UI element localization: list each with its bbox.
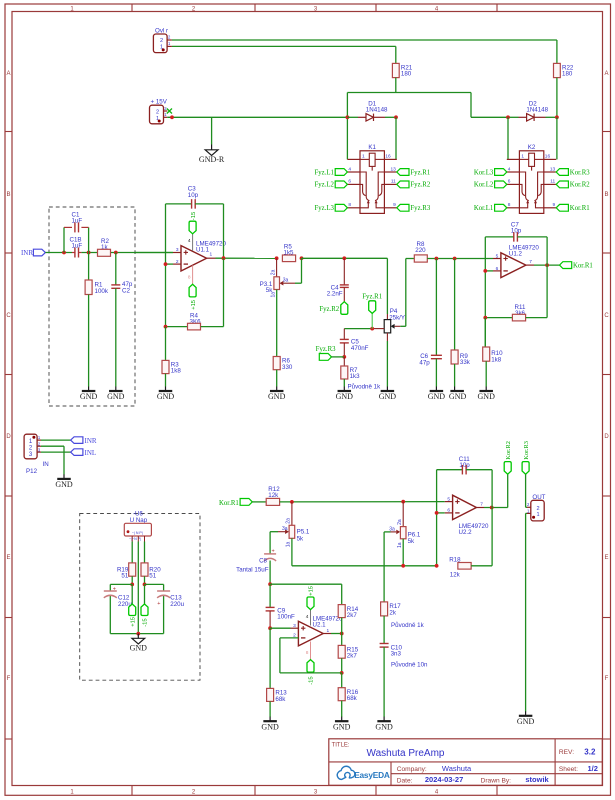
svg-text:3a: 3a xyxy=(283,277,289,283)
svg-text:-15: -15 xyxy=(191,212,197,220)
junction -in xyxy=(164,262,168,266)
junction output feedback xyxy=(222,256,226,260)
svg-text:1k8: 1k8 xyxy=(491,356,502,363)
svg-text:Ovl r: Ovl r xyxy=(155,27,168,34)
wire P4 wiper riser to R8 xyxy=(406,259,414,327)
ground under R3 xyxy=(165,387,167,392)
svg-text:7: 7 xyxy=(529,259,532,265)
svg-text:2: 2 xyxy=(156,109,159,115)
svg-text:D: D xyxy=(6,434,11,440)
ground under C6 xyxy=(435,387,437,392)
svg-text:9: 9 xyxy=(393,202,396,208)
svg-text:F: F xyxy=(605,676,609,682)
wire to GND-R xyxy=(211,117,213,144)
capacitor C12 220u xyxy=(104,586,133,608)
svg-text:P5.1: P5.1 xyxy=(297,529,310,536)
svg-text:Fyz.R1: Fyz.R1 xyxy=(362,294,382,301)
svg-text:GND: GND xyxy=(107,392,125,401)
svg-text:U1.2: U1.2 xyxy=(509,251,523,258)
wire K1 pin1 drop xyxy=(346,93,348,160)
junction D1 anode xyxy=(346,115,350,119)
wire U2.1 output xyxy=(323,633,342,635)
svg-text:Fyz.R1: Fyz.R1 xyxy=(410,169,430,176)
svg-text:Původně 1k: Původně 1k xyxy=(348,383,382,390)
svg-text:+15: +15 xyxy=(130,617,136,627)
svg-text:1: 1 xyxy=(536,512,539,518)
junction U2.2 output xyxy=(490,506,494,510)
net flag Fyz.L3 xyxy=(314,204,347,212)
svg-text:8: 8 xyxy=(188,274,191,280)
ground under R13 xyxy=(269,717,271,722)
svg-text:12k: 12k xyxy=(450,571,461,578)
svg-text:1uF: 1uF xyxy=(72,218,83,225)
wire supply left loop xyxy=(110,584,163,633)
op-amp U2.1 LME49720 xyxy=(293,615,343,646)
svg-text:13: 13 xyxy=(390,166,396,172)
svg-text:8: 8 xyxy=(508,202,511,208)
svg-text:6: 6 xyxy=(508,179,511,185)
svg-text:C: C xyxy=(604,313,609,319)
ground under R10 xyxy=(485,387,487,392)
resistor R16 68k xyxy=(338,673,359,717)
svg-text:5k: 5k xyxy=(297,536,304,543)
capacitor C4 2.2nF xyxy=(327,258,349,301)
junction +15V pin1 xyxy=(170,115,174,119)
junction R5 left xyxy=(275,256,279,260)
power flag -15 on U2.1 xyxy=(307,660,315,685)
junction R4 left xyxy=(164,325,168,329)
wire +15V rail xyxy=(167,116,347,118)
junction P6.1 top xyxy=(401,500,405,504)
resistor R6 330 xyxy=(273,290,293,387)
power flag +15 on U2.1 xyxy=(307,586,315,610)
svg-text:10p: 10p xyxy=(188,192,199,199)
wire input rail xyxy=(45,252,172,254)
ground under R16 xyxy=(341,717,343,722)
svg-text:180: 180 xyxy=(562,71,573,78)
U1.1 power pin 8 xyxy=(188,265,193,284)
svg-text:5: 5 xyxy=(496,253,499,259)
svg-text:1N4148: 1N4148 xyxy=(526,107,548,114)
wire feedback right vertical xyxy=(223,204,225,258)
svg-text:1N4148: 1N4148 xyxy=(366,107,388,114)
wire R12 to P6.1 and U2.2 xyxy=(280,501,453,503)
svg-text:1uF: 1uF xyxy=(72,242,83,249)
power flag +15 on U1.1 xyxy=(189,284,197,310)
resistor R15 2k7 xyxy=(338,634,359,673)
svg-text:INR: INR xyxy=(85,437,97,445)
junction input b xyxy=(87,251,91,255)
junction P6.1 bottom xyxy=(401,564,405,568)
connector Ovl r xyxy=(153,27,172,52)
svg-text:Drawn By:: Drawn By: xyxy=(481,777,512,784)
svg-text:EasyEDA: EasyEDA xyxy=(354,770,390,780)
svg-text:GND-R: GND-R xyxy=(199,155,225,164)
svg-text:K2: K2 xyxy=(528,144,536,151)
ground under C10 xyxy=(383,717,385,722)
svg-text:IN: IN xyxy=(43,461,49,468)
svg-text:51: 51 xyxy=(121,572,128,579)
svg-text:Kor.R1: Kor.R1 xyxy=(573,262,593,269)
svg-text:1k3: 1k3 xyxy=(350,373,361,380)
ground under OUT xyxy=(525,711,527,716)
potentiometer P4 25k/Y xyxy=(384,308,406,333)
net flag Kor.L1 xyxy=(474,204,507,212)
junction Fyz.R3 node xyxy=(342,355,346,359)
svg-text:2a: 2a xyxy=(397,519,403,525)
wire P4 bottom to ground xyxy=(386,333,388,387)
svg-text:+15: +15 xyxy=(191,300,197,310)
svg-text:Kor.R2: Kor.R2 xyxy=(570,182,590,189)
svg-text:GND: GND xyxy=(268,392,286,401)
svg-text:U2.2: U2.2 xyxy=(459,529,473,536)
svg-text:stowik: stowik xyxy=(525,775,549,784)
svg-text:INL: INL xyxy=(85,449,97,457)
svg-text:Washuta: Washuta xyxy=(442,764,472,773)
ground under C2 xyxy=(115,387,117,392)
net flag Kor.R1 source xyxy=(219,499,266,508)
svg-text:C2: C2 xyxy=(122,287,130,294)
svg-text:51: 51 xyxy=(149,572,156,579)
resistor R7 1k3 xyxy=(341,357,360,387)
svg-text:3a: 3a xyxy=(282,526,288,532)
resistor R13 68k xyxy=(267,628,288,717)
svg-text:B: B xyxy=(604,192,608,198)
resistor R18 12k xyxy=(449,556,492,578)
svg-text:REV:: REV: xyxy=(559,749,574,756)
svg-text:GND: GND xyxy=(375,722,393,731)
ground GND-R xyxy=(199,150,225,164)
junction R15 bottom xyxy=(340,671,344,675)
svg-text:GND: GND xyxy=(336,392,354,401)
dashed box input filter xyxy=(49,207,135,406)
net flag Fyz.R1 xyxy=(362,294,382,329)
junction D2 anode xyxy=(506,115,510,119)
wire P12 pin2 to ground xyxy=(41,446,64,474)
wire R22 bottom xyxy=(556,78,558,118)
svg-text:1: 1 xyxy=(362,154,365,160)
wire U2.1 feedback loop xyxy=(280,638,342,673)
svg-text:4: 4 xyxy=(188,238,191,244)
wire U2.2 -in xyxy=(437,512,453,514)
svg-text:Fyz.R3: Fyz.R3 xyxy=(410,205,430,212)
resistor R9 33k xyxy=(451,259,471,387)
ground supply mid xyxy=(137,634,139,639)
capacitor C10 3n3 xyxy=(380,644,403,718)
title block xyxy=(329,739,603,786)
net flag Fyz.L1 xyxy=(314,169,347,177)
U2.1 power pin 8 xyxy=(306,642,311,660)
junction R19 out xyxy=(130,583,134,587)
svg-text:GND: GND xyxy=(130,644,148,653)
svg-text:100nF: 100nF xyxy=(277,613,295,620)
port flag INR bottom xyxy=(71,437,97,445)
capacitor C2 47p xyxy=(111,253,133,387)
wire Ovl pin2 to R22 xyxy=(172,40,557,63)
wire K2 pin1 drop xyxy=(507,117,509,159)
svg-text:16: 16 xyxy=(385,154,391,160)
svg-text:−|−N P|: −|−N P| xyxy=(129,537,141,541)
wire output riser to Kor.R2 xyxy=(507,474,509,507)
svg-text:2k: 2k xyxy=(389,609,396,616)
svg-text:+: + xyxy=(272,548,275,554)
svg-text:3a: 3a xyxy=(389,526,395,532)
diode D2 1N4148 xyxy=(508,100,557,121)
wire feedback right vertical xyxy=(546,237,548,265)
resistor R4 3K6 feedback xyxy=(166,258,224,330)
svg-text:E: E xyxy=(6,555,10,561)
svg-text:-15: -15 xyxy=(309,676,315,684)
svg-text:220: 220 xyxy=(415,247,426,254)
resistor R5 1k5 xyxy=(282,243,295,261)
ground under R9 xyxy=(449,387,467,402)
svg-text:2.2nF: 2.2nF xyxy=(327,290,343,297)
junction U2.1 output xyxy=(340,632,344,636)
net flag Fyz.R1 xyxy=(397,169,430,177)
svg-text:Původně 1k: Původně 1k xyxy=(391,622,425,629)
wire U2.2 output xyxy=(476,507,507,509)
wire U6 mid pin to ground rail xyxy=(137,542,139,634)
wire P4 top drop xyxy=(386,258,388,319)
junction P5.1 top xyxy=(290,500,294,504)
net flag Fyz.R3 xyxy=(316,346,345,360)
svg-text:A: A xyxy=(6,71,10,77)
component U6 U Nap xyxy=(124,510,151,541)
svg-text:Fyz.R3: Fyz.R3 xyxy=(316,346,336,353)
svg-text:INR: INR xyxy=(21,249,33,257)
svg-text:Sheet:: Sheet: xyxy=(559,766,578,773)
svg-text:1: 1 xyxy=(210,251,213,257)
svg-text:3n3: 3n3 xyxy=(391,651,402,658)
wire R5 right rail xyxy=(302,257,388,259)
svg-text:GND: GND xyxy=(261,722,279,731)
resistor R17 2k xyxy=(381,602,402,644)
wire R8 to U1.2 xyxy=(427,258,501,260)
junction U2.1 +in xyxy=(268,626,272,630)
capacitor C1B 1uF xyxy=(70,236,83,257)
svg-text:+15: +15 xyxy=(309,586,315,596)
svg-text:100k: 100k xyxy=(95,288,109,295)
svg-text:180: 180 xyxy=(401,71,412,78)
junction D2 cathode xyxy=(555,115,559,119)
junction U1.2 output xyxy=(545,263,549,267)
svg-text:1: 1 xyxy=(521,154,524,160)
resistor R3 1k8 xyxy=(162,327,181,387)
connector OUT xyxy=(527,494,546,521)
svg-text:−| N P|: −| N P| xyxy=(132,531,143,535)
resistor R2 1k xyxy=(98,238,111,256)
svg-text:U2.1: U2.1 xyxy=(313,621,327,628)
svg-text:25k/Y: 25k/Y xyxy=(389,314,405,321)
svg-text:+: + xyxy=(113,586,116,592)
wire C5 node xyxy=(344,328,384,330)
svg-text:47p: 47p xyxy=(419,359,430,366)
wire OUT pin1 to ground xyxy=(526,513,527,711)
svg-text:2a: 2a xyxy=(286,518,292,524)
wire supply right loop xyxy=(145,584,164,633)
wire K1 pin16 drop xyxy=(395,117,397,159)
wire to U1.1 +in xyxy=(135,252,181,254)
net flag Kor.R1 output xyxy=(560,262,593,270)
net flag Kor.L2 xyxy=(474,181,507,189)
junction C8 bottom xyxy=(268,582,272,586)
EasyEDA logo xyxy=(337,766,390,780)
junction R11 left xyxy=(483,316,487,320)
net flag Kor.R2 xyxy=(504,441,512,474)
net flag Fyz.R2 xyxy=(319,302,347,315)
wire P12 pin1 to INR xyxy=(41,439,71,441)
svg-text:1a: 1a xyxy=(286,542,292,548)
svg-text:GND: GND xyxy=(517,717,535,726)
svg-text:F: F xyxy=(7,676,11,682)
svg-text:Washuta PreAmp: Washuta PreAmp xyxy=(367,748,445,759)
svg-text:E: E xyxy=(604,555,608,561)
junction input a xyxy=(62,251,66,255)
junction U2.2 -in xyxy=(435,511,439,515)
resistor R12 12k xyxy=(266,486,280,506)
resistor R11 3k6 xyxy=(485,265,547,321)
svg-text:5k: 5k xyxy=(408,538,415,545)
resistor R14 2k7 xyxy=(338,605,359,634)
svg-text:16: 16 xyxy=(545,154,551,160)
svg-text:GND: GND xyxy=(333,722,351,731)
net flag Fyz.L2 xyxy=(314,181,347,189)
power flag -15 source xyxy=(141,584,149,626)
ground under R1 xyxy=(88,387,90,392)
resistor R1 100k xyxy=(85,253,109,387)
svg-text:GND: GND xyxy=(55,480,73,489)
wire P5.1 bottom rail xyxy=(292,538,437,566)
junction U1.2 -in xyxy=(483,269,487,273)
junction C11 bottom rail xyxy=(435,564,439,568)
svg-text:4: 4 xyxy=(348,166,351,172)
svg-text:+: + xyxy=(157,601,160,607)
capacitor C11 10p feedback xyxy=(437,456,493,475)
power flag -15 on U1.1 xyxy=(189,212,197,234)
svg-text:220u: 220u xyxy=(170,601,184,608)
svg-text:2k7: 2k7 xyxy=(347,653,358,660)
svg-text:4: 4 xyxy=(306,614,309,620)
net flag Kor.L3 xyxy=(474,169,507,177)
connector P12 IN xyxy=(24,434,49,475)
junction input c xyxy=(114,251,118,255)
svg-text:330: 330 xyxy=(282,364,293,371)
svg-text:Kor.R1: Kor.R1 xyxy=(219,500,239,507)
U2.1 power pin 4 xyxy=(306,610,311,626)
relay K1 xyxy=(347,144,396,213)
svg-text:K1: K1 xyxy=(368,144,376,151)
net flag Kor.R2 xyxy=(556,181,590,189)
svg-text:1k8: 1k8 xyxy=(171,368,182,375)
junction C4 tap xyxy=(342,256,346,260)
junction D1 cathode xyxy=(394,115,398,119)
capacitor C1 1uF xyxy=(64,212,89,253)
port flag INL xyxy=(71,449,97,457)
wire U1.2 -in xyxy=(485,270,501,272)
svg-text:Kor.R1: Kor.R1 xyxy=(570,205,590,212)
svg-text:Date:: Date: xyxy=(397,777,413,784)
wire C11 right vertical xyxy=(491,470,493,566)
svg-text:13: 13 xyxy=(550,166,556,172)
junction R9 tap xyxy=(453,257,457,261)
svg-text:A: A xyxy=(604,71,608,77)
net flag Kor.R1 xyxy=(556,204,589,212)
net flag Kor.R3 xyxy=(522,441,531,507)
svg-text:D: D xyxy=(604,434,609,440)
svg-text:Tantal 15uF: Tantal 15uF xyxy=(236,567,269,574)
wire U1.2 feedback left vertical xyxy=(484,237,486,347)
svg-text:Kor.L3: Kor.L3 xyxy=(474,169,494,176)
svg-text:GND: GND xyxy=(80,392,98,401)
wire Ovl pin1 to R21 xyxy=(172,46,396,63)
op-amp U1.2 LME49720 xyxy=(496,245,540,278)
net flag Fyz.R3 xyxy=(397,204,431,212)
svg-text:Company:: Company: xyxy=(397,766,427,773)
potentiometer P6.1 5k xyxy=(384,502,421,548)
svg-text:5: 5 xyxy=(447,496,450,502)
svg-text:8: 8 xyxy=(306,650,309,656)
relay K2 xyxy=(507,144,556,213)
net flag Kor.R3 xyxy=(556,169,590,177)
svg-text:GND: GND xyxy=(428,392,446,401)
svg-text:1/2: 1/2 xyxy=(588,764,598,773)
svg-text:Fyz.L3: Fyz.L3 xyxy=(314,205,334,212)
ground under P4 xyxy=(386,387,388,392)
resistor R10 1k8 xyxy=(483,318,503,387)
svg-text:1a: 1a xyxy=(397,542,403,548)
svg-text:Kor.R3: Kor.R3 xyxy=(523,441,530,460)
svg-text:33k: 33k xyxy=(460,359,471,366)
resistor R20 51 xyxy=(141,542,161,585)
power flag +15 source xyxy=(129,584,137,626)
junction R20 out xyxy=(143,583,147,587)
svg-text:8: 8 xyxy=(348,202,351,208)
connector +15V xyxy=(150,99,168,124)
ground under R7 xyxy=(343,387,345,392)
wire K2 pin16 drop xyxy=(556,117,558,159)
svg-text:Kor.R3: Kor.R3 xyxy=(570,169,590,176)
op-amp U2.2 LME49720 xyxy=(447,495,489,536)
port flag INR xyxy=(21,249,45,257)
U1.1 power pin 4 xyxy=(188,234,193,251)
ground under R6 xyxy=(276,387,278,392)
svg-text:B: B xyxy=(6,192,10,198)
svg-text:2: 2 xyxy=(160,38,163,44)
svg-text:GND: GND xyxy=(478,392,496,401)
resistor R19 51 xyxy=(117,542,136,585)
svg-text:2: 2 xyxy=(536,506,539,512)
svg-text:3.2: 3.2 xyxy=(584,747,596,756)
svg-text:2a: 2a xyxy=(270,269,276,275)
svg-text:10p: 10p xyxy=(511,227,522,234)
svg-text:-15: -15 xyxy=(143,618,149,626)
ground under P12 xyxy=(63,474,65,479)
svg-text:10p: 10p xyxy=(459,462,470,469)
junction R5 right xyxy=(300,256,304,260)
svg-text:Kor.L2: Kor.L2 xyxy=(474,182,494,189)
wire C8 node to R14 xyxy=(270,584,342,604)
svg-text:C8: C8 xyxy=(259,558,267,565)
svg-text:6: 6 xyxy=(348,179,351,185)
capacitor C7 10p feedback xyxy=(485,221,547,241)
svg-text:11: 11 xyxy=(550,179,555,185)
svg-text:4: 4 xyxy=(508,166,511,172)
wire C11 left vertical xyxy=(436,470,438,566)
svg-text:U1.1: U1.1 xyxy=(196,246,210,253)
potentiometer P5.1 5k xyxy=(270,502,310,547)
wire P6.1 wiper to R17 xyxy=(383,532,385,602)
svg-text:2024-03-27: 2024-03-27 xyxy=(425,775,463,784)
